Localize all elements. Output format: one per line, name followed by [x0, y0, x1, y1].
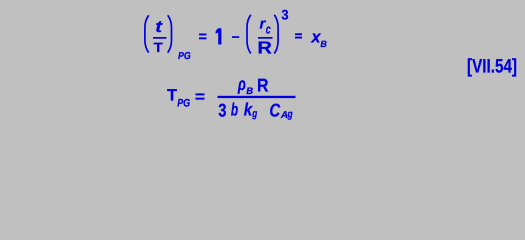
equals sign 1	[199, 34, 207, 36]
svg-text:PG: PG	[178, 51, 191, 62]
svg-text:PG: PG	[177, 98, 190, 110]
svg-text:g: g	[251, 108, 257, 120]
svg-text:T: T	[167, 87, 177, 105]
svg-text:R: R	[257, 75, 269, 96]
left parenthesis of (t/T)	[145, 15, 149, 52]
fraction bar r_c/R	[258, 37, 273, 39]
svg-text:C: C	[269, 100, 280, 121]
svg-text:R: R	[257, 38, 272, 58]
svg-text:3: 3	[281, 7, 288, 23]
svg-text:g: g	[287, 108, 293, 120]
svg-text:ρ: ρ	[237, 74, 246, 94]
svg-text:c: c	[266, 22, 272, 37]
svg-text:B: B	[246, 86, 253, 97]
svg-text:3: 3	[218, 99, 226, 120]
equals sign 2	[295, 33, 302, 35]
svg-text:B: B	[320, 39, 327, 49]
svg-text:T: T	[154, 40, 164, 55]
svg-text:[VII.54]: [VII.54]	[467, 56, 517, 78]
left parenthesis of (r_c/R)	[247, 15, 251, 54]
minus sign	[232, 36, 239, 38]
digit 1 (vector, no foot serif)	[216, 28, 222, 44]
main fraction bar	[218, 96, 296, 98]
equals sign 3	[196, 93, 205, 95]
svg-text:b: b	[231, 99, 238, 119]
fraction bar t/T	[153, 37, 166, 39]
right parenthesis of (t/T)	[168, 15, 172, 52]
right parenthesis of (r_c/R)	[274, 15, 278, 54]
